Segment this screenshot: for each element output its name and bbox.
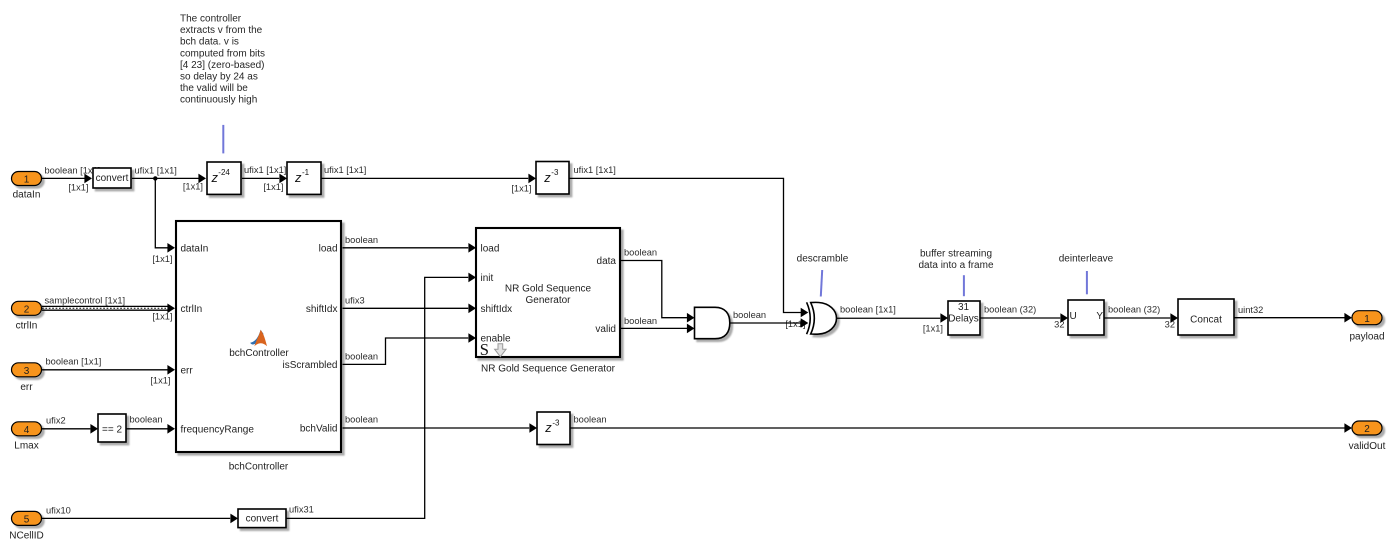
block convert2 (bottom) [238, 509, 286, 528]
block Delay z-3 top [536, 162, 569, 195]
svg-text:boolean: boolean [345, 352, 378, 362]
svg-text:z: z [211, 170, 219, 185]
svg-text:shiftIdx: shiftIdx [481, 304, 513, 315]
svg-text:bchController: bchController [229, 462, 289, 473]
svg-text:1: 1 [24, 175, 30, 186]
wire err to bchController [42, 357, 175, 386]
svg-text:data into a frame: data into a frame [918, 260, 993, 271]
svg-text:computed from bits: computed from bits [180, 48, 265, 59]
annotation: controller note [180, 14, 265, 106]
block Selector U Y [1068, 300, 1104, 335]
svg-text:[1x1]: [1x1] [263, 182, 283, 192]
wire bch load to NR load [343, 235, 477, 253]
svg-text:descramble: descramble [797, 253, 849, 264]
svg-text:boolean (32): boolean (32) [984, 305, 1036, 315]
outport 1 payload [1349, 311, 1384, 343]
wire Concat to payload [1234, 305, 1352, 323]
inport 3 err [12, 363, 42, 393]
wire Delay3 bottom to validOut [570, 415, 1352, 433]
svg-text:valid: valid [595, 324, 616, 335]
svg-text:boolean [1x1]: boolean [1x1] [45, 166, 101, 176]
svg-text:ufix3: ufix3 [345, 296, 365, 306]
wire Delay24 to Delay1 [242, 165, 287, 192]
wire convert to Delay24 with branch [132, 166, 206, 265]
svg-text:bchValid: bchValid [300, 424, 338, 435]
wire compare to bchController frequencyRange [127, 415, 176, 434]
svg-text:[4 23] (zero-based): [4 23] (zero-based) [180, 60, 265, 71]
wire XOR out to Delays [837, 305, 948, 334]
block compare == 2 [98, 414, 126, 442]
inport 1 dataIn [12, 172, 42, 201]
annotation: descramble [797, 253, 849, 296]
svg-text:2: 2 [24, 304, 30, 315]
svg-text:NR Gold Sequence Generator: NR Gold Sequence Generator [481, 364, 616, 375]
svg-text:ufix1 [1x1]: ufix1 [1x1] [574, 165, 616, 175]
svg-text:[1x1]: [1x1] [150, 376, 170, 386]
annotation: buffer streaming [918, 248, 993, 296]
gray down arrow badge [495, 344, 507, 357]
svg-text:boolean: boolean [574, 415, 607, 425]
svg-text:ufix1 [1x1]: ufix1 [1x1] [135, 166, 177, 176]
svg-text:the valid will be: the valid will be [180, 83, 248, 94]
annotation connector line to Delay24 [222, 125, 224, 153]
svg-text:continuously high: continuously high [180, 95, 257, 106]
svg-text:-1: -1 [302, 168, 310, 177]
svg-text:ufix1 [1x1]: ufix1 [1x1] [324, 165, 366, 175]
svg-text:boolean (32): boolean (32) [1108, 305, 1160, 315]
svg-text:z: z [543, 170, 551, 185]
svg-text:dataIn: dataIn [181, 243, 209, 254]
svg-text:so delay by 24 as: so delay by 24 as [180, 72, 258, 83]
svg-text:boolean: boolean [624, 248, 657, 258]
svg-text:err: err [20, 382, 33, 393]
svg-text:z: z [544, 420, 552, 435]
svg-text:init: init [481, 273, 494, 284]
svg-text:ufix10: ufix10 [46, 506, 71, 516]
AND gate [695, 307, 730, 338]
svg-text:samplecontrol [1x1]: samplecontrol [1x1] [45, 296, 126, 306]
svg-text:validOut: validOut [1349, 441, 1386, 452]
svg-text:Delays: Delays [948, 314, 979, 325]
block Concat [1178, 299, 1234, 335]
svg-text:4: 4 [24, 425, 30, 436]
svg-text:boolean [1x1]: boolean [1x1] [46, 357, 102, 367]
block NR Gold Sequence Generator [476, 228, 620, 359]
outport 2 validOut [1349, 421, 1386, 452]
svg-text:buffer streaming: buffer streaming [920, 248, 992, 259]
block Delay z-1 [287, 162, 321, 194]
svg-text:[1x1]: [1x1] [923, 324, 943, 334]
svg-text:boolean: boolean [345, 235, 378, 245]
svg-text:deinterleave: deinterleave [1059, 253, 1114, 264]
wire bch isScrambled to NR enable [343, 333, 477, 364]
svg-text:[1x1]: [1x1] [511, 184, 531, 194]
svg-text:Lmax: Lmax [14, 441, 38, 452]
svg-text:boolean: boolean [130, 415, 163, 425]
wire NCellID to convert2 [42, 506, 238, 524]
inport 4 Lmax [12, 422, 42, 452]
annotation: deinterleave [1059, 253, 1114, 294]
svg-text:3: 3 [24, 366, 30, 377]
svg-text:ctrlIn: ctrlIn [16, 321, 38, 332]
wire NR valid to AND input2 [621, 316, 695, 333]
svg-text:boolean: boolean [624, 316, 657, 326]
svg-text:== 2: == 2 [102, 425, 122, 436]
svg-text:extracts v from the: extracts v from the [180, 25, 263, 36]
wire AND out to XOR input2 [730, 310, 809, 329]
svg-text:uint32: uint32 [1238, 305, 1263, 315]
inport 5 NCellID [9, 511, 43, 541]
wire bch bchValid to Delay3 bottom [343, 415, 538, 433]
svg-text:-24: -24 [218, 168, 230, 177]
svg-text:boolean: boolean [733, 310, 766, 320]
XOR gate descramble [807, 302, 837, 334]
wire Selector to Concat [1104, 305, 1178, 330]
svg-text:load: load [481, 243, 500, 254]
svg-text:isScrambled: isScrambled [282, 360, 337, 371]
block convert (top) [93, 168, 131, 188]
svg-text:31: 31 [958, 302, 970, 313]
svg-text:payload: payload [1349, 332, 1384, 343]
block Delay z-24 [207, 162, 241, 194]
svg-text:[1x1]: [1x1] [152, 254, 172, 264]
svg-text:NCellID: NCellID [9, 531, 43, 542]
wire Delay1 to Delay3 [322, 165, 537, 193]
svg-text:Generator: Generator [525, 295, 571, 306]
svg-text:z: z [294, 170, 302, 185]
svg-text:dataIn: dataIn [13, 190, 41, 201]
svg-text:frequencyRange: frequencyRange [181, 424, 255, 435]
inport 2 ctrlIn [12, 301, 42, 331]
svg-text:-3: -3 [552, 418, 560, 427]
block 31 Delays [948, 301, 980, 335]
block Delay z-3 bottom [537, 412, 570, 445]
svg-text:ufix2: ufix2 [46, 416, 66, 426]
svg-text:[1x1]: [1x1] [152, 312, 172, 322]
MATLAB logo icon [250, 330, 267, 347]
wire Delays to Selector [980, 305, 1068, 330]
svg-text:2: 2 [1364, 424, 1370, 435]
svg-text:NR Gold Sequence: NR Gold Sequence [505, 283, 592, 294]
svg-text:shiftIdx: shiftIdx [306, 304, 338, 315]
svg-text:boolean [1x1]: boolean [1x1] [840, 305, 896, 315]
wire dataIn to convert [42, 166, 100, 193]
wire Delay3 to XOR top input [570, 165, 809, 317]
svg-text:[1x1]: [1x1] [68, 183, 88, 193]
wire ctrlIn bus to bchController [42, 296, 175, 322]
svg-text:-3: -3 [551, 168, 559, 177]
svg-text:convert: convert [246, 514, 279, 525]
wire bch shiftIdx to NR shiftIdx [343, 296, 477, 314]
svg-text:ctrlIn: ctrlIn [181, 304, 203, 315]
svg-text:The controller: The controller [180, 14, 242, 25]
wire NR data to AND input1 [621, 248, 695, 323]
svg-text:err: err [181, 365, 194, 376]
svg-text:U: U [1070, 311, 1077, 322]
svg-text:convert: convert [96, 173, 129, 184]
svg-text:ufix1 [1x1]: ufix1 [1x1] [244, 165, 286, 175]
block bchController [176, 221, 341, 452]
svg-text:bch data. v is: bch data. v is [180, 37, 239, 48]
wire Lmax to compare [42, 416, 98, 434]
svg-text:load: load [319, 243, 338, 254]
wire convert2 to NR Gold init [286, 273, 476, 519]
junction [153, 176, 157, 180]
svg-text:5: 5 [24, 515, 30, 526]
svg-text:[1x1]: [1x1] [183, 182, 203, 192]
svg-text:1: 1 [1364, 314, 1370, 325]
svg-text:Y: Y [1096, 311, 1103, 322]
svg-text:bchController: bchController [229, 348, 289, 359]
svg-text:ufix31: ufix31 [289, 505, 314, 515]
svg-text:S: S [480, 340, 489, 359]
svg-text:boolean: boolean [345, 415, 378, 425]
svg-text:Concat: Concat [1190, 314, 1222, 325]
svg-text:data: data [597, 256, 617, 267]
svg-text:32: 32 [1165, 320, 1175, 330]
